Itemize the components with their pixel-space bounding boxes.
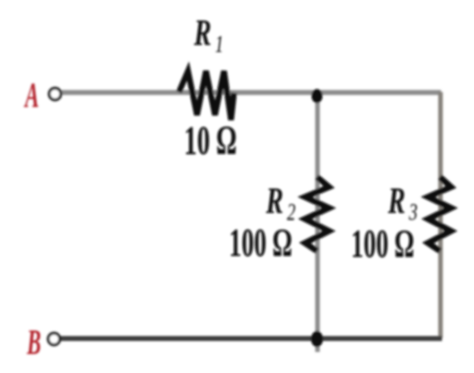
svg-text:B: B: [26, 324, 41, 363]
wire middle vertical: [315, 95, 320, 352]
resistor R2: [305, 177, 329, 251]
node junction top: [312, 89, 323, 103]
svg-text:A: A: [24, 77, 39, 116]
label R1: [193, 13, 211, 53]
wire top A to corner: [61, 90, 441, 95]
svg-text:R: R: [387, 181, 405, 221]
wire right vertical: [438, 92, 443, 338]
value 10 ohm: [184, 117, 236, 164]
node A label: [24, 77, 39, 116]
node B label: [26, 324, 41, 363]
label R3: [387, 181, 405, 221]
svg-text:10 Ω: 10 Ω: [184, 117, 236, 164]
wire bottom B to corner: [60, 336, 442, 341]
node junction bottom: [311, 331, 323, 347]
terminal B circle: [48, 333, 60, 345]
svg-text:100 Ω: 100 Ω: [229, 221, 292, 265]
resistor R1: [179, 71, 234, 120]
terminal A circle: [49, 88, 61, 100]
svg-text:1: 1: [215, 30, 223, 58]
svg-text:100 Ω: 100 Ω: [351, 222, 414, 266]
value 100 ohm R3: [351, 222, 414, 266]
svg-text:R: R: [265, 181, 283, 221]
value 100 ohm R2: [229, 221, 292, 265]
resistor R3: [428, 177, 451, 251]
svg-text:R: R: [193, 13, 211, 53]
label R2: [265, 181, 283, 221]
